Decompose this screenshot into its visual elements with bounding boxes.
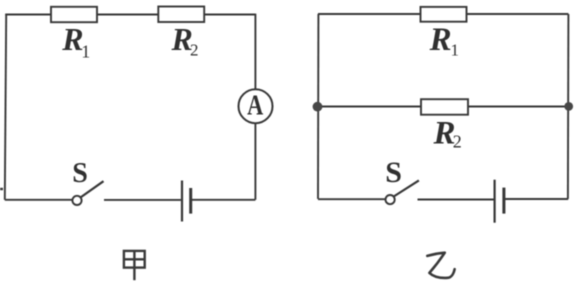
- wire: top-left segment of circuit 乙: [318, 13, 421, 15]
- scan artifact at left edge: [0, 188, 3, 190]
- resistor R1 (乙) box: [421, 7, 467, 22]
- wire: middle branch left segment (乙): [318, 106, 421, 108]
- wire: left vertical of circuit 乙: [317, 14, 319, 199]
- svg-text:2: 2: [190, 41, 199, 60]
- switch S (乙) lever: [394, 180, 419, 196]
- resistor R2 (乙) box: [421, 99, 468, 115]
- junction node left (乙): [313, 102, 323, 112]
- svg-text:S: S: [72, 158, 88, 189]
- ammeter A1 circle: [239, 89, 273, 123]
- wire: top segment between R1 and R2 (甲): [97, 14, 158, 16]
- svg-text:A: A: [247, 89, 263, 121]
- resistor R1 (甲) box: [51, 7, 97, 22]
- caption 乙 (drawn glyph): [427, 253, 454, 278]
- svg-text:1: 1: [81, 42, 90, 62]
- resistor R2 (甲) box: [158, 7, 204, 23]
- svg-text:1: 1: [451, 41, 460, 60]
- svg-text:R: R: [429, 22, 452, 58]
- battery B2 (乙) short plate: [502, 188, 505, 214]
- switch S (乙) pivot circle: [386, 195, 395, 204]
- switch S (甲) lever: [81, 181, 104, 197]
- wire: bottom-left segment of circuit 乙: [318, 198, 386, 200]
- wire: right vertical upper (甲), corner to ammeter: [254, 14, 256, 89]
- wire: top-right segment of circuit 甲: [204, 14, 255, 16]
- wire: bottom segment switch to battery (甲): [104, 199, 181, 201]
- junction node right (乙): [564, 102, 573, 111]
- wire: bottom segment battery to right corner (甲): [192, 199, 256, 201]
- battery B2 (乙) long plate: [494, 180, 496, 223]
- wire: left vertical of circuit 甲: [5, 15, 6, 200]
- svg-text:S: S: [385, 156, 402, 189]
- svg-text:R: R: [61, 21, 83, 57]
- wire: middle branch right segment (乙): [468, 106, 568, 108]
- svg-text:2: 2: [453, 132, 462, 152]
- wire: right vertical lower (甲), ammeter to bottom corner: [254, 124, 256, 200]
- wire: top-right segment of circuit 乙: [467, 13, 569, 15]
- wire: top-left segment of circuit 甲: [5, 14, 52, 16]
- battery B1 (甲) long plate: [181, 181, 183, 222]
- wire: bottom-left segment of circuit 甲: [5, 199, 73, 201]
- battery B1 (甲) short plate: [189, 188, 192, 214]
- wire: bottom segment switch to battery (乙): [418, 199, 494, 201]
- switch S (甲) pivot circle: [72, 196, 81, 205]
- caption 甲 (drawn glyph): [124, 251, 145, 280]
- wire: bottom segment battery to right corner (乙): [505, 198, 568, 200]
- wire: right vertical of circuit 乙: [567, 14, 570, 199]
